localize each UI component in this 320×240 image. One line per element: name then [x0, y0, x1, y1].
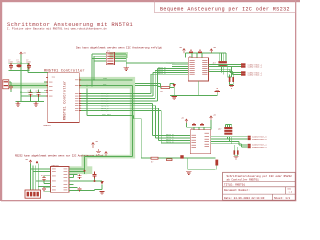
svg-text:VCC_MOT: VCC_MOT: [102, 113, 111, 116]
highlight band right lower (net SCL): [79, 83, 135, 89]
banner box: [155, 0, 296, 13]
svg-text:SCHRITTMOT-3: SCHRITTMOT-3: [252, 138, 267, 141]
wire IC1 left pin stubs: [44, 82, 48, 90]
capacitor C15 far right: [93, 172, 97, 179]
svg-text:Date: 24.06.2004 22:14:03: Date: 24.06.2004 22:14:03: [224, 197, 265, 200]
capacitor C8 above IC2: [198, 50, 202, 53]
capacitor C12: [42, 187, 46, 191]
diode D2 rs232: [100, 181, 104, 185]
highlight band vertical MAX232: [82, 155, 88, 174]
wire group main: [5, 54, 216, 174]
bus wire 3: [79, 71, 188, 99]
bus wire 1: [79, 74, 188, 93]
resistor network R1: [218, 61, 227, 66]
highlight band right upper (net SDA): [79, 77, 135, 83]
bus labels at x103: [101, 92, 109, 112]
wire jumper left 2: [94, 55, 106, 57]
bus wire 6: [79, 106, 190, 138]
title block outer box: [223, 172, 296, 200]
ground symbol left 1: [15, 101, 20, 106]
svg-text:+5V: +5V: [25, 159, 28, 161]
highlight band MAX232 right pins: [70, 166, 93, 174]
junction dot x21 caps: [20, 62, 22, 64]
wire jumper right 4: [115, 60, 127, 62]
svg-text:JP1: JP1: [107, 51, 110, 53]
connector X3 labels: [252, 136, 267, 149]
+5V symbol x106: [105, 152, 108, 157]
svg-text:TITLE: RN5T01: TITLE: RN5T01: [224, 184, 245, 187]
wire main vertical left x21: [20, 64, 22, 101]
junction dot rs232: [94, 180, 96, 182]
ground symbol R5: [233, 156, 238, 159]
+5V symbol MAX232: [29, 160, 32, 164]
wire jumper vertical SCL: [93, 56, 95, 80]
+5V symbol IC4 left: [185, 119, 188, 123]
wire jumper left 4: [94, 60, 106, 62]
bus wire 7: [79, 108, 190, 140]
highlight band jumper (net I2C): [110, 52, 129, 58]
highlight band horizontal RS232: [82, 155, 136, 159]
junction dot band2: [93, 79, 95, 81]
wire reset circuit horizontals: [135, 83, 161, 85]
wire vertical +5V feed x133.8: [87, 89, 141, 119]
IC5 inner pin labels: [52, 169, 67, 191]
svg-text:SCHRITTMOT-4: SCHRITTMOT-4: [252, 146, 267, 149]
wire caps to rails: [31, 90, 39, 102]
junction dot band x87: [86, 85, 88, 87]
ground symbol left 2: [33, 101, 38, 106]
wire left y92: [21, 91, 48, 93]
capacitor C14 right of IC5: [78, 188, 82, 192]
svg-text:100n: 100n: [8, 61, 14, 64]
IC1 right pins: [79, 79, 81, 111]
resistor R6 row left of IC4: [151, 157, 172, 160]
wire highlighted vertical MAX232: [84, 157, 86, 175]
diode D1: [173, 84, 177, 87]
wire MAX232 right stubs: [69, 169, 95, 191]
wire jumper left 1: [92, 53, 106, 55]
svg-text:4k7: 4k7: [218, 128, 221, 131]
resistor network R4: [224, 127, 232, 135]
wire jumper vertical SDA: [91, 54, 93, 86]
wire cap row horizontal: [9, 62, 30, 64]
svg-text:RN5T01 Controller: RN5T01 Controller: [44, 68, 85, 73]
resistor R7 right: [215, 160, 218, 166]
capacitor C1: [9, 63, 13, 69]
wire IC4 top supply: [186, 120, 211, 130]
IC1 inner pin labels: [49, 80, 79, 111]
wire IC2 bottom gnd: [170, 81, 217, 95]
IC2 box (I2C expander): [188, 58, 208, 81]
wire C11: [44, 176, 51, 184]
wire highlighted vertical x132.3: [131, 86, 133, 157]
wire R5: [234, 145, 238, 156]
connector X4 pins: [27, 192, 39, 197]
bus wire 8: [79, 111, 190, 143]
wire cap C4 stub: [9, 82, 11, 92]
svg-text:ab Controller RN5T01: ab Controller RN5T01: [227, 178, 260, 182]
wire C12: [44, 187, 51, 191]
capacitor C6: [37, 90, 41, 97]
jumper block JP1: [106, 52, 114, 64]
svg-text:RN5T01 Controller: RN5T01 Controller: [63, 81, 68, 121]
title block dividers: [223, 182, 296, 201]
wire IC4 right to connectors: [211, 136, 248, 147]
wire IC4 to X3 rows: [211, 137, 248, 147]
wire left y96: [21, 95, 48, 97]
connector X3 pins: [248, 136, 251, 149]
IC5 right side wires: [69, 169, 95, 191]
IC2 inner pin labels: [190, 60, 208, 74]
wire gnd rail left: [16, 100, 45, 102]
wire IC2 to X2 rows: [209, 64, 242, 74]
wire IC2 extra left pins: [172, 65, 188, 67]
+5V symbol IC2 right: [210, 49, 213, 53]
resistor R5 pair below X3: [234, 150, 239, 154]
ground symbol reset: [172, 97, 177, 100]
component small left of IC4: [180, 155, 183, 158]
svg-text:MAX232: MAX232: [52, 164, 60, 167]
bus wire 4: [79, 69, 188, 101]
highlight band left (net +5V): [5, 83, 48, 89]
wire highlighted horizontal y156.5: [85, 156, 133, 158]
wire pullup taps: [217, 64, 231, 77]
svg-text:Schrittmotorsteuerung per I2C: Schrittmotorsteuerung per I2C oder RS232: [227, 174, 293, 178]
wire IC4 bottom drop: [188, 158, 217, 170]
+5V symbol above rs232: [92, 143, 95, 149]
border frame right: [295, 1, 296, 201]
wire R3 connections: [158, 83, 174, 87]
connector X2 labels: [248, 63, 263, 76]
wire reset vertical: [170, 83, 174, 96]
wire vcc rail to IC: [28, 63, 48, 72]
capacitor C10 above IC4: [200, 123, 204, 126]
wire IC2 right to connectors: [209, 64, 242, 77]
highlight band vertical to RS232: [130, 83, 135, 158]
bus labels at elbows top: [158, 66, 166, 75]
svg-text:SCHRITTMOT-2: SCHRITTMOT-2: [248, 73, 263, 76]
wire SDA band right: [79, 79, 132, 81]
svg-text:I. Platine oder Bausatz mit RN: I. Platine oder Bausatz mit RN5T01 bei w…: [7, 27, 107, 31]
svg-text:Document Number:: Document Number:: [224, 188, 250, 192]
svg-text:100n: 100n: [26, 61, 32, 64]
wire jumper right 3: [115, 58, 127, 60]
wire SCL band right: [79, 85, 132, 87]
connector X2 pins: [241, 63, 246, 75]
wire MAX232 left verticals: [31, 164, 51, 191]
svg-text:+5V: +5V: [213, 115, 216, 117]
svg-text:SCHRITTMOT-1: SCHRITTMOT-1: [248, 65, 263, 68]
+5V symbol IC2 left: [183, 49, 186, 54]
ground symbol IC4: [186, 172, 191, 175]
resistor R3 reset: [161, 87, 170, 89]
capacitor C9 above IC4: [192, 123, 196, 126]
svg-text:+5V: +5V: [181, 118, 184, 120]
svg-text:MOT2_D: MOT2_D: [101, 109, 109, 112]
ground symbol jumper: [124, 67, 129, 71]
capacitor C3: [27, 63, 31, 69]
capacitor C7 above IC2: [189, 50, 193, 53]
IC5 MAX232 box: [51, 167, 69, 193]
wire R4 tops: [225, 125, 231, 128]
wire jumper gnd vertical: [125, 54, 127, 67]
wire cap bottom rail: [9, 69, 30, 71]
border frame bottom: [1, 200, 296, 201]
ground symbol x93: [96, 149, 101, 154]
junction dot x21 y92: [20, 91, 22, 93]
border frame top: [0, 0, 300, 2]
IC4 inner pin labels: [192, 133, 210, 148]
op IC1 main controller box: [48, 73, 80, 123]
capacitor C4: [9, 86, 13, 90]
wire long RXD to IC2: [126, 62, 188, 64]
capacitor C2 polarized: [16, 64, 21, 67]
wire R2 to gnd: [230, 72, 234, 85]
wire gnd rail bottom IC4: [141, 119, 215, 158]
capacitor C11: [42, 176, 46, 181]
bus wire 2: [79, 72, 188, 96]
svg-text:MOT2_D: MOT2_D: [166, 140, 174, 143]
svg-text:Das kann abgeklemmt werden wen: Das kann abgeklemmt werden wenn I2C Anst…: [76, 46, 162, 50]
svg-text:+5V: +5V: [95, 141, 98, 143]
ground symbol R2: [229, 85, 234, 88]
power connector X1: [3, 80, 9, 89]
wire IC2 top supply: [186, 53, 226, 58]
wire jumper left 3: [92, 58, 106, 60]
junction dot MAX232 highlight: [84, 170, 86, 172]
wire jumper right 2: [115, 55, 127, 57]
svg-text:Bequeme Ansteuerung per I2C od: Bequeme Ansteuerung per I2C oder RS232: [160, 6, 290, 12]
wire diode connections: [95, 179, 103, 191]
border frame left: [0, 0, 2, 201]
IC1 left pins: [46, 77, 48, 96]
connector DB9 X4: [25, 190, 41, 198]
wire jumper right 1: [115, 53, 127, 55]
+5V symbol IC4 right: [210, 116, 213, 120]
wire R4 taps: [225, 136, 231, 144]
wire MAX232 verticals: [31, 164, 39, 191]
junction dot x30.5 y92: [30, 91, 32, 93]
ground symbol IC2: [215, 89, 220, 92]
junction dot MAX232 vcc: [36, 161, 38, 163]
bus wire 5: [79, 103, 190, 135]
ground symbol rs232 right: [99, 192, 104, 195]
resistor R2 pair below: [229, 77, 234, 82]
bus labels bottom IC4: [166, 133, 174, 144]
wire +5V down to cap row: [20, 54, 22, 64]
svg-text:+5V: +5V: [179, 47, 182, 49]
junction dot band: [91, 85, 93, 87]
svg-text:+5V: +5V: [213, 47, 216, 49]
svg-text:Sheet: 1/1: Sheet: 1/1: [274, 196, 291, 200]
capacitor C5: [29, 90, 33, 97]
svg-text:+5V: +5V: [23, 53, 26, 55]
svg-text:MOT1_D: MOT1_D: [158, 72, 166, 75]
page background: [0, 0, 300, 203]
IC4 box (driver): [190, 130, 210, 154]
svg-text:RN5T01: RN5T01: [44, 124, 52, 127]
jumper JP1 pin bars: [107, 53, 113, 64]
wire +5V comb pullups: [219, 53, 226, 61]
svg-text:PCA_MAX: PCA_MAX: [166, 62, 175, 65]
wire MAX232 left stubs: [31, 169, 51, 187]
capacitor C13 right of IC5: [78, 175, 82, 179]
+5V symbol top left: [20, 52, 23, 55]
wire +5V band left: [5, 85, 48, 87]
